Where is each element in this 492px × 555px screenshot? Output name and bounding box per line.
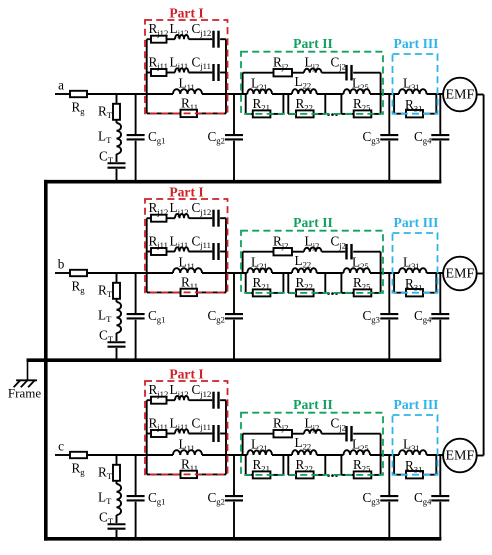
resistor R25 (phase c) [354, 471, 372, 478]
capacitor Cj2 (phase c) [345, 426, 347, 442]
wire Part I left vertical (phase c) [146, 400, 148, 474]
svg-text:EMF: EMF [446, 449, 475, 464]
inductor L22 (phase a) [292, 89, 317, 94]
wire LT-CT (phase b) [116, 333, 118, 341]
wire Part II right vertical (phase b) [380, 252, 382, 273]
resistor R31 (phase a) [406, 110, 423, 117]
Part I dashed box (phase a) [145, 20, 228, 113]
inductor L11 (phase c) [173, 450, 202, 455]
wire Cg2 top (phase a) [233, 94, 235, 134]
capacitor CT (phase c) [108, 523, 126, 525]
resistor R21 (phase a) [253, 110, 271, 117]
wire Part I left vertical (phase b) [146, 218, 148, 292]
inductor Lj12 (phase b) [175, 214, 189, 218]
capacitor Cg1 (phase a) [127, 134, 145, 136]
resistor R25 (phase b) [354, 289, 372, 296]
wire L22-R22 cell verticals (phase b) [287, 273, 289, 293]
Part I dashed box (phase b) [145, 199, 228, 292]
wire CT-ground (phase c) [116, 530, 118, 539]
svg-text:c: c [58, 439, 64, 454]
capacitor Cg2 (phase c) [225, 495, 243, 497]
wire L22-R22 cell verticals (phase a) [287, 94, 289, 114]
wire Part III cell verticals (phase b) [393, 273, 395, 293]
svg-text:a: a [58, 78, 64, 93]
wire Cg4 bottom (phase a) [439, 141, 441, 183]
wire Part II top branch (phase a) [243, 72, 274, 74]
wire frame drop [27, 360, 29, 380]
Part III dashed box (phase c) [393, 415, 438, 475]
resistor RT (phase a) [113, 104, 120, 120]
inductor Lj11 (phase c) [175, 429, 189, 433]
resistor Rj12 (phase a) [151, 36, 167, 43]
Part II dashed box (phase b) [241, 231, 383, 293]
ground bus phase c [44, 537, 441, 541]
wire Cg1 top (phase c) [135, 455, 137, 495]
capacitor Cg1 (phase b) [127, 313, 145, 315]
wire RT-LT (phase c) [116, 481, 118, 484]
svg-text:Part III: Part III [394, 397, 439, 412]
wire Cg4 bottom (phase c) [439, 502, 441, 541]
inductor L21 (phase c) [247, 450, 272, 455]
resistor Rj11 (phase b) [151, 248, 167, 255]
capacitor Cg4 (phase c) [431, 495, 449, 497]
wire RT branch (phase a) [116, 94, 118, 104]
capacitor Cj2 (phase b) [345, 244, 347, 260]
inductor Lj12 (phase c) [175, 396, 189, 400]
inductor L11 (phase b) [173, 268, 202, 273]
inductor L25 (phase b) [344, 268, 371, 273]
ellipsis dots (phase b) [327, 292, 330, 295]
svg-text:Part I: Part I [169, 6, 203, 21]
wire L25-R25 cell verticals (phase c) [340, 455, 342, 475]
ground bus phase b [27, 358, 442, 362]
resistor R22 (phase a) [296, 110, 314, 117]
wire Cg2 bottom (phase c) [233, 502, 235, 539]
wire Part III cell verticals (phase a) [393, 94, 395, 114]
wire RT-LT (phase a) [116, 120, 118, 123]
svg-text:Part I: Part I [169, 185, 203, 200]
wire Part I right vertical (phase b) [225, 218, 227, 292]
svg-text:EMF: EMF [446, 88, 475, 103]
capacitor Cg2 (phase b) [225, 313, 243, 315]
wire L22-R22 cell verticals (phase c) [287, 455, 289, 475]
wire LT-CT (phase c) [116, 515, 118, 523]
wire R31 branch (phase a) [394, 113, 406, 115]
wire Cg3 top (phase a) [388, 94, 390, 134]
resistor Rg (phase a) [70, 91, 87, 97]
wire Cg3 bottom (phase b) [388, 320, 390, 360]
wire L25-R25 cell verticals (phase a) [340, 94, 342, 114]
capacitor Cj11 (phase b) [212, 243, 214, 260]
capacitor Cg3 (phase c) [380, 495, 398, 497]
wire Part I right vertical (phase c) [225, 400, 227, 474]
capacitor Cg3 (phase b) [380, 313, 398, 315]
wire Part I branch1 (phase c) [147, 399, 151, 401]
wire R21 branch (phase b) [246, 292, 253, 294]
bus left vertical link [44, 180, 48, 541]
EMF source (phase c) [443, 439, 477, 473]
wire Part II left vertical (phase b) [242, 252, 244, 273]
wire EMF right (phase b) [477, 273, 484, 275]
wire R21 branch (phase a) [246, 113, 253, 115]
wire R31 branch (phase b) [394, 292, 406, 294]
resistor Rg (phase c) [70, 452, 87, 458]
resistor RT (phase c) [113, 465, 120, 481]
wire RT-LT (phase b) [116, 299, 118, 302]
wire EMF right (phase a) [477, 94, 484, 96]
capacitor CT (phase b) [108, 341, 126, 343]
wire Part II left vertical (phase c) [242, 434, 244, 455]
wire Cg1 bottom (phase a) [135, 141, 137, 182]
wire EMF common right vertical [483, 95, 485, 456]
wire Part I branch1 (phase b) [147, 217, 151, 219]
wire Part I branch2 (phase c) [147, 433, 151, 435]
inductor L31 (phase b) [399, 268, 427, 273]
wire main line (phase b) [87, 272, 173, 274]
wire Part I branch4 (phase c) [147, 473, 181, 475]
capacitor Cg1 (phase c) [127, 495, 145, 497]
capacitor Cj2 (phase a) [345, 65, 347, 81]
wire RT branch (phase b) [116, 273, 118, 283]
wire R25 branch (phase a) [341, 113, 353, 115]
svg-text:Part III: Part III [394, 36, 439, 51]
wire Cg1 top (phase b) [135, 273, 137, 313]
inductor Lj2 (phase a) [304, 68, 322, 72]
wire Cg2 top (phase c) [233, 455, 235, 495]
inductor LT (phase b) [117, 302, 122, 333]
resistor Rj2 (phase b) [274, 248, 293, 255]
svg-text:Frame: Frame [8, 386, 41, 401]
wire R21 branch (phase c) [246, 474, 253, 476]
resistor R31 (phase b) [406, 289, 423, 296]
wire L21-R21 cell verticals (phase a) [245, 94, 247, 114]
inductor Lj2 (phase b) [304, 247, 322, 251]
ellipsis dots (phase c) [327, 474, 330, 477]
wire Cg4 top (phase c) [439, 455, 441, 495]
resistor RT (phase b) [113, 283, 120, 299]
wire R22 branch (phase c) [288, 474, 296, 476]
wire Part I branch4 (phase a) [147, 112, 181, 114]
wire phase-a input [55, 93, 70, 95]
wire Cg3 top (phase b) [388, 273, 390, 313]
resistor R11 (phase b) [181, 289, 198, 296]
wire R22 branch (phase a) [288, 113, 296, 115]
resistor Rj2 (phase a) [274, 69, 293, 76]
svg-text:EMF: EMF [446, 267, 475, 282]
inductor Lj11 (phase a) [175, 68, 189, 72]
resistor R22 (phase c) [296, 471, 314, 478]
wire Part I left vertical (phase a) [146, 39, 148, 113]
wire phase-c input [55, 454, 70, 456]
inductor L21 (phase b) [247, 268, 272, 273]
wire Cg3 bottom (phase a) [388, 141, 390, 182]
capacitor Cj12 (phase a) [212, 31, 214, 48]
wire Part I branch2 (phase b) [147, 251, 151, 253]
resistor Rj12 (phase b) [151, 215, 167, 222]
resistor R21 (phase b) [253, 289, 271, 296]
wire Cg3 bottom (phase c) [388, 502, 390, 539]
wire Cg4 bottom (phase b) [439, 320, 441, 362]
resistor Rj2 (phase c) [274, 430, 293, 437]
inductor L31 (phase a) [399, 89, 427, 94]
inductor Lj12 (phase a) [175, 35, 189, 39]
wire CT-ground (phase a) [116, 169, 118, 182]
resistor R31 (phase c) [406, 471, 423, 478]
capacitor Cg3 (phase a) [380, 134, 398, 136]
resistor R22 (phase b) [296, 289, 314, 296]
capacitor CT (phase a) [108, 162, 126, 164]
resistor R11 (phase c) [181, 471, 198, 478]
wire Cg1 top (phase a) [135, 94, 137, 134]
EMF source (phase b) [443, 257, 477, 291]
ground bus phase a [44, 180, 441, 184]
wire CT-ground (phase b) [116, 348, 118, 360]
resistor R21 (phase c) [253, 471, 271, 478]
inductor L22 (phase b) [292, 268, 317, 273]
capacitor Cj11 (phase c) [212, 425, 214, 442]
svg-text:b: b [58, 257, 65, 272]
inductor L11 (phase a) [173, 89, 202, 94]
wire main line (phase c) [87, 454, 173, 456]
capacitor Cj11 (phase a) [212, 64, 214, 81]
wire Cg2 bottom (phase a) [233, 141, 235, 182]
wire R31 branch (phase c) [394, 474, 406, 476]
wire Cg4 top (phase a) [439, 94, 441, 134]
svg-text:Part II: Part II [293, 397, 333, 412]
wire Part II right vertical (phase c) [380, 434, 382, 455]
wire Part III cell verticals (phase c) [393, 455, 395, 475]
Part III dashed box (phase b) [393, 233, 438, 293]
wire Part II right vertical (phase a) [380, 73, 382, 94]
inductor L31 (phase c) [399, 450, 427, 455]
inductor L21 (phase a) [247, 89, 272, 94]
inductor L25 (phase a) [344, 89, 371, 94]
inductor LT (phase a) [117, 123, 122, 154]
wire Cg1 bottom (phase c) [135, 502, 137, 539]
wire L21-R21 cell verticals (phase b) [245, 273, 247, 293]
wire Cg3 top (phase c) [388, 455, 390, 495]
svg-text:Part I: Part I [169, 367, 203, 382]
wire Cg2 bottom (phase b) [233, 320, 235, 360]
ground symbol Frame [16, 379, 37, 381]
Part I dashed box (phase c) [145, 381, 228, 474]
capacitor Cj12 (phase b) [212, 210, 214, 227]
resistor R11 (phase a) [181, 110, 198, 117]
inductor L25 (phase c) [344, 450, 371, 455]
svg-text:Part II: Part II [293, 36, 333, 51]
svg-text:Part III: Part III [394, 215, 439, 230]
inductor Lj11 (phase b) [175, 247, 189, 251]
resistor Rj11 (phase c) [151, 430, 167, 437]
resistor Rj11 (phase a) [151, 69, 167, 76]
wire Part I branch1 (phase a) [147, 38, 151, 40]
Part III dashed box (phase a) [393, 54, 438, 114]
wire Part I branch4 (phase b) [147, 291, 181, 293]
wire R22 branch (phase b) [288, 292, 296, 294]
wire R25 branch (phase c) [341, 474, 353, 476]
inductor Lj2 (phase c) [304, 430, 322, 434]
wire L25-R25 cell verticals (phase b) [340, 273, 342, 293]
svg-text:Part II: Part II [293, 215, 333, 230]
inductor L22 (phase c) [292, 450, 317, 455]
wire Part I right vertical (phase a) [225, 39, 227, 113]
capacitor Cg4 (phase b) [431, 313, 449, 315]
resistor Rj12 (phase c) [151, 397, 167, 404]
wire Cg1 bottom (phase b) [135, 320, 137, 360]
wire Part II left vertical (phase a) [242, 73, 244, 94]
inductor LT (phase c) [117, 484, 122, 515]
EMF source (phase a) [443, 78, 477, 112]
ellipsis dots (phase a) [327, 113, 330, 116]
capacitor Cg2 (phase a) [225, 134, 243, 136]
Part II dashed box (phase c) [241, 413, 383, 475]
wire RT branch (phase c) [116, 455, 118, 465]
wire LT-CT (phase a) [116, 154, 118, 162]
wire Cg4 top (phase b) [439, 273, 441, 313]
wire phase-b input [55, 272, 70, 274]
wire Part II top branch (phase b) [243, 251, 274, 253]
wire Part I branch2 (phase a) [147, 72, 151, 74]
resistor Rg (phase b) [70, 270, 87, 276]
capacitor Cj12 (phase c) [212, 392, 214, 409]
resistor R25 (phase a) [354, 110, 372, 117]
wire main line (phase a) [87, 93, 173, 95]
wire Part II top branch (phase c) [243, 433, 274, 435]
capacitor Cg4 (phase a) [431, 134, 449, 136]
Part II dashed box (phase a) [241, 52, 383, 114]
wire EMF right (phase c) [477, 455, 484, 457]
wire R25 branch (phase b) [341, 292, 353, 294]
wire Cg2 top (phase b) [233, 273, 235, 313]
wire L21-R21 cell verticals (phase c) [245, 455, 247, 475]
